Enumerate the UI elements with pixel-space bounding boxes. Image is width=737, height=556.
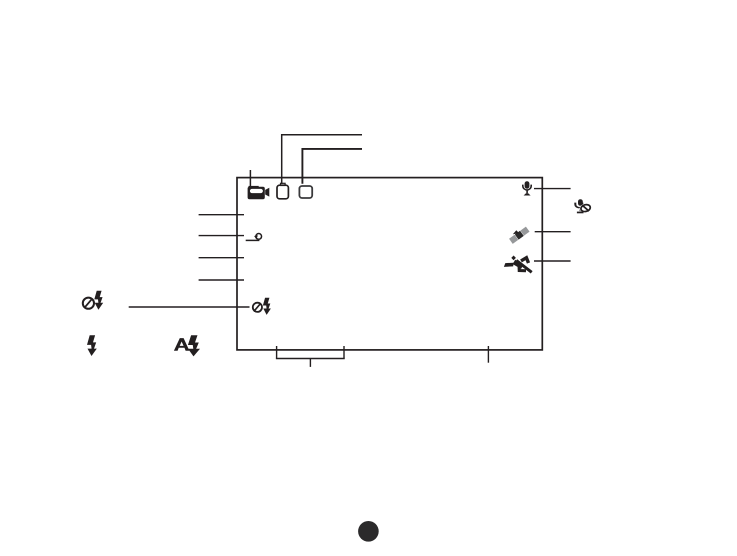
callout wire: movie icon (short vertical) [249, 170, 251, 187]
microphone icon [522, 181, 532, 195]
bottom bracket right tick [343, 346, 345, 359]
callout wire: left 4 [199, 279, 244, 281]
callout wire: microphone (right) [534, 188, 571, 190]
flash-off icon (inside screen) [253, 298, 271, 315]
flash bolt icon (bottom left) [87, 335, 96, 350]
bottom bracket center stem [309, 359, 311, 367]
callout wire: runner (right) [534, 260, 571, 262]
bottom bracket horizontal [276, 358, 345, 360]
LCD screen rectangle [237, 178, 542, 350]
bottom right tick [487, 346, 489, 363]
framing (photo) icon [299, 186, 312, 198]
callout wire: left 2 [199, 235, 244, 237]
flash-off icon (outside, left) [83, 291, 103, 310]
movie-mode camera icon [248, 186, 270, 199]
callout wire: left 1 [199, 214, 244, 216]
callout wire: satellite (right) [535, 231, 571, 233]
satellite icon [509, 226, 530, 243]
bottom bracket left tick [276, 346, 278, 359]
callout wire: left 3 [199, 257, 244, 259]
callout wire: flash-off long line [129, 306, 250, 308]
auto flash icon: letter A [174, 338, 190, 351]
battery icon [277, 183, 288, 199]
callout wire: battery (top, upper) [282, 135, 362, 184]
runner-off icon [504, 256, 532, 273]
microphone-off icon (outside, right) [574, 199, 591, 213]
self-timer / loop icon [246, 234, 262, 241]
page number dot [358, 521, 379, 542]
callout wire: framing icon (top, lower) [302, 149, 362, 184]
auto flash icon: bolt [188, 335, 199, 351]
